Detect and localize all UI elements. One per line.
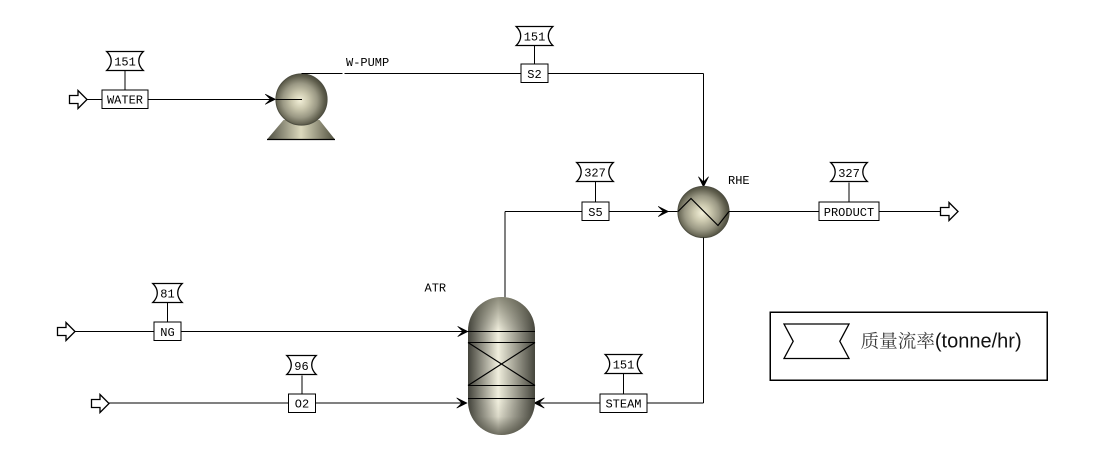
- svg-text:RHE: RHE: [728, 174, 750, 188]
- arrowhead into ATR right: [534, 398, 544, 408]
- wire flag stem PRODUCT: [848, 183, 850, 203]
- svg-text:O2: O2: [295, 397, 309, 411]
- wire flag stem S2: [534, 46, 536, 64]
- wire flag stem S5: [595, 182, 597, 202]
- heat exchanger RHE internal zigzag: [678, 199, 729, 226]
- svg-text:NG: NG: [160, 326, 174, 340]
- reactor ATR band lines: [468, 331, 535, 333]
- svg-text:327: 327: [838, 167, 860, 181]
- wire pump outlet to S2 corner: [302, 73, 343, 75]
- pump W-PUMP sphere: [276, 74, 327, 125]
- svg-text:S2: S2: [527, 68, 541, 82]
- product outlet open arrow: [941, 203, 959, 221]
- svg-text:S5: S5: [588, 206, 602, 220]
- flag 327 (PRODUCT mass flow): [831, 163, 868, 182]
- svg-text:96: 96: [294, 360, 308, 374]
- reactor ATR bottom cap shading: [468, 402, 535, 435]
- flag 151 (WATER mass flow): [107, 52, 144, 71]
- pump W-PUMP base trapezoid: [267, 120, 335, 140]
- reactor ATR X packing cross: [468, 343, 535, 386]
- legend flag symbol: [784, 324, 849, 359]
- wire S5 horizontal to RHE: [505, 211, 678, 213]
- wire RHE right to PRODUCT out: [729, 211, 940, 213]
- feed arrow NG inlet: [58, 323, 76, 341]
- reactor ATR vessel body: [468, 297, 535, 435]
- wire flag stem STEAM: [623, 374, 625, 394]
- legend text 质量流率: [861, 332, 934, 349]
- arrowhead O2 into ATR: [457, 398, 467, 408]
- arrowhead into RHE top: [698, 177, 708, 187]
- stream label box PRODUCT: [819, 202, 879, 221]
- feed arrow O2 inlet: [92, 395, 110, 413]
- svg-text:81: 81: [160, 287, 174, 301]
- wire flag stem O2: [301, 376, 303, 394]
- svg-text:151: 151: [613, 358, 635, 372]
- wire O2 feed to ATR: [109, 402, 467, 404]
- wire corner down to RHE: [703, 74, 705, 188]
- svg-text:151: 151: [524, 30, 546, 44]
- stream label box S5: [582, 202, 609, 221]
- svg-text:ATR: ATR: [425, 282, 447, 296]
- svg-text:WATER: WATER: [107, 94, 143, 108]
- svg-text:PRODUCT: PRODUCT: [824, 206, 874, 220]
- arrowhead NG into ATR: [458, 326, 468, 336]
- svg-text:327: 327: [584, 166, 606, 180]
- wire NG feed to ATR: [75, 331, 468, 333]
- flag 151 (STEAM mass flow): [605, 355, 642, 374]
- wire ATR top riser: [504, 212, 506, 299]
- svg-text:151: 151: [114, 55, 136, 69]
- arrowhead into pump: [265, 94, 275, 104]
- reactor ATR top cap shading: [468, 297, 535, 331]
- wire RHE bottom down: [703, 238, 705, 403]
- flag 327 (S5 mass flow): [577, 163, 614, 182]
- stream label box NG: [154, 322, 181, 341]
- svg-text:(tonne/hr): (tonne/hr): [935, 331, 1022, 353]
- flag 151 (S2 mass flow): [516, 27, 553, 46]
- stream label box S2: [521, 64, 548, 83]
- heat exchanger RHE circle: [678, 186, 729, 237]
- wire WATER feed to pump: [87, 98, 302, 100]
- flag 96 (O2 mass flow): [287, 356, 316, 375]
- svg-text:STEAM: STEAM: [605, 397, 641, 411]
- stream label box WATER: [102, 90, 148, 109]
- stream label box O2: [289, 394, 316, 413]
- feed arrow WATER inlet: [70, 91, 88, 109]
- wire inlet over pump sphere: [276, 98, 302, 100]
- stream label box STEAM: [600, 394, 647, 413]
- wire flag stem WATER: [124, 71, 126, 90]
- flag 81 (NG mass flow): [153, 284, 182, 303]
- wire STEAM horizontal into ATR: [534, 402, 704, 404]
- arrowhead into RHE left: [658, 206, 668, 216]
- wire flag stem NG: [167, 303, 169, 322]
- svg-text:W-PUMP: W-PUMP: [346, 56, 389, 70]
- legend box: [770, 312, 1047, 380]
